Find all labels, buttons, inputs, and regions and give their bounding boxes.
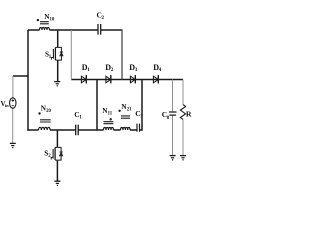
svg-text:in: in <box>5 103 9 108</box>
svg-text:10: 10 <box>50 18 55 23</box>
ground under C0 <box>170 156 176 160</box>
wire C0 branch upper (gray) <box>172 80 174 112</box>
ground under S2 <box>54 181 60 185</box>
svg-text:21: 21 <box>127 108 132 113</box>
svg-text:20: 20 <box>46 109 51 114</box>
diode D4 <box>153 76 158 83</box>
ground under S1 <box>54 82 60 86</box>
inductor N21 coil <box>121 116 131 130</box>
inductor N11 coil <box>104 122 114 130</box>
wire C2 drop <box>121 29 123 79</box>
ground under Vin <box>10 143 16 147</box>
wire S2 source to ground <box>56 160 58 181</box>
transistor S1 <box>52 47 64 60</box>
capacitor C2 <box>98 24 101 35</box>
node dot N20 <box>38 112 40 114</box>
svg-text:2: 2 <box>111 67 114 73</box>
wire left rail <box>27 30 29 131</box>
diode D2 <box>106 76 111 83</box>
ground under R <box>180 156 186 160</box>
wire C3 corner riser <box>141 80 143 131</box>
source Vin circle <box>10 98 16 108</box>
wire R branch lower (gray) <box>182 120 184 156</box>
inductor N20 bottom-left coil <box>39 120 51 130</box>
wire D1 anode drop (gray) <box>70 30 72 80</box>
svg-text:1: 1 <box>87 67 90 73</box>
svg-text:11: 11 <box>108 112 113 117</box>
wire diode row <box>71 79 183 81</box>
diode D1 <box>81 76 86 83</box>
svg-text:4: 4 <box>159 67 162 73</box>
svg-text:R: R <box>186 110 192 119</box>
svg-text:1: 1 <box>79 115 82 120</box>
wire S2 drain drop <box>56 130 58 147</box>
wire R branch upper (gray) <box>182 80 184 105</box>
capacitor C3 <box>137 124 140 132</box>
transistor S2 <box>51 147 63 160</box>
svg-text:0: 0 <box>167 116 170 121</box>
resistor R <box>180 105 185 120</box>
wire S1 source to ground <box>57 60 59 81</box>
svg-text:3: 3 <box>135 67 138 73</box>
wire S1 drain drop <box>57 30 59 47</box>
capacitor C0 <box>169 112 177 115</box>
node dot N21 <box>118 110 120 112</box>
wire Vin vertical upper (gray) <box>12 76 14 98</box>
inductor N10 top coil <box>40 22 50 30</box>
node dot N11 <box>110 118 112 120</box>
capacitor C1 <box>76 125 79 136</box>
wire C0 branch lower (gray) <box>172 116 174 156</box>
wire top rail <box>28 29 122 31</box>
node dot N10 <box>37 19 39 21</box>
wire riser D1-D2 to middle <box>96 80 98 131</box>
wire Vin tap <box>13 75 29 77</box>
diode D3 <box>130 76 135 83</box>
wire middle rail <box>27 129 142 131</box>
wire Vin vertical lower (gray) <box>12 108 14 143</box>
svg-text:2: 2 <box>102 16 105 21</box>
